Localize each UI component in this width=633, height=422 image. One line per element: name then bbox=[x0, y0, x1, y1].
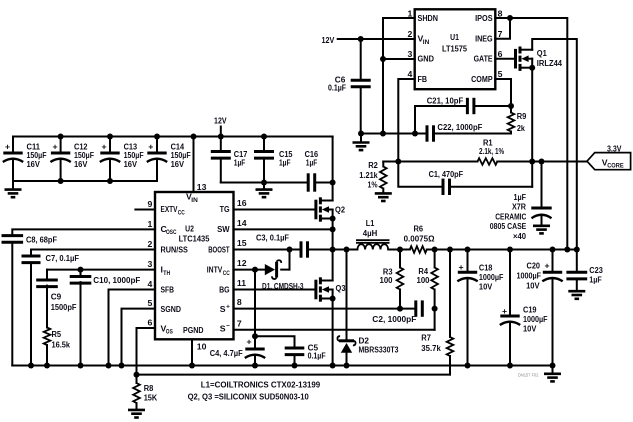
capacitor C9 bbox=[46, 270, 48, 280]
svg-text:2k: 2k bbox=[517, 123, 525, 133]
svg-text:Q3: Q3 bbox=[336, 283, 346, 293]
wire IPOS sense bbox=[495, 18, 567, 250]
resistor R6 sense bbox=[410, 246, 427, 253]
transistor Q3 bbox=[314, 280, 317, 300]
svg-text:1µF: 1µF bbox=[306, 158, 318, 168]
svg-text:+: + bbox=[502, 306, 507, 316]
inductor L1 bbox=[333, 249, 358, 251]
svg-text:0805 CASE: 0805 CASE bbox=[490, 221, 527, 231]
wire SFB to ground bbox=[109, 290, 156, 366]
wire INTVCC line bbox=[234, 269, 266, 271]
capacitor C17 bbox=[220, 137, 222, 152]
svg-text:0.1µF: 0.1µF bbox=[308, 351, 326, 361]
diode D1 CMDSH-3 bbox=[265, 264, 275, 275]
svg-text:BOOST: BOOST bbox=[208, 245, 230, 255]
svg-text:1µF: 1µF bbox=[589, 275, 602, 285]
resistor R9 bbox=[510, 106, 512, 113]
svg-text:1000µF: 1000µF bbox=[479, 272, 504, 282]
svg-text:5: 5 bbox=[147, 298, 152, 308]
transistor Q2 bbox=[314, 200, 317, 220]
svg-text:16: 16 bbox=[237, 198, 247, 208]
capacitor C3 bbox=[300, 241, 303, 257]
svg-text:TH: TH bbox=[163, 270, 170, 277]
svg-text:CORE: CORE bbox=[607, 162, 624, 169]
svg-text:3: 3 bbox=[147, 259, 152, 269]
capacitor C5 bbox=[255, 336, 295, 348]
svg-text:C7, 0.1µF: C7, 0.1µF bbox=[46, 253, 80, 263]
ground C23 bbox=[568, 290, 585, 293]
capacitor C2 bbox=[414, 300, 417, 316]
capacitor C12 bbox=[60, 137, 62, 154]
wire Q3 source to ground bbox=[332, 299, 334, 366]
ground X7R cap bbox=[533, 225, 550, 228]
wire ITH line bbox=[47, 269, 155, 271]
svg-text:1000µF: 1000µF bbox=[517, 270, 542, 280]
wire Q1 drain to output bbox=[532, 39, 577, 250]
wire Vcore feedback line bbox=[383, 161, 477, 163]
svg-text:R2: R2 bbox=[368, 160, 378, 170]
svg-text:BG: BG bbox=[219, 285, 230, 295]
capacitor C16 bbox=[307, 173, 310, 191]
node VCORE output tag bbox=[587, 153, 631, 170]
svg-text:10V: 10V bbox=[523, 324, 537, 334]
wire SW line bbox=[234, 228, 333, 230]
svg-text:C8, 68pF: C8, 68pF bbox=[26, 235, 57, 245]
svg-text:C2, 1000pF: C2, 1000pF bbox=[372, 314, 416, 324]
resistor R8 bbox=[136, 375, 138, 383]
svg-text:COMP: COMP bbox=[471, 74, 493, 84]
svg-text:X7R: X7R bbox=[512, 202, 527, 212]
wire bypass ground line bbox=[221, 182, 308, 184]
capacitor C15 bbox=[263, 137, 265, 152]
svg-text:L1: L1 bbox=[366, 218, 375, 228]
svg-text:MBRS330T3: MBRS330T3 bbox=[359, 344, 399, 354]
svg-text:12V: 12V bbox=[322, 35, 335, 45]
wire PGND lead bbox=[191, 339, 193, 365]
diode D2 MBRS330T3 bbox=[346, 250, 348, 341]
svg-text:13: 13 bbox=[197, 182, 207, 192]
svg-text:R7: R7 bbox=[421, 333, 431, 343]
svg-text:15: 15 bbox=[237, 238, 247, 248]
svg-text:1000µF: 1000µF bbox=[523, 314, 548, 324]
svg-text:7: 7 bbox=[498, 29, 503, 39]
ground U1 analog bus bbox=[361, 133, 427, 135]
capacitor C6 bbox=[358, 36, 364, 42]
svg-text:+: + bbox=[101, 142, 106, 152]
wire GATE to Q1 bbox=[495, 58, 515, 60]
svg-text:S: S bbox=[220, 304, 226, 314]
svg-text:OS: OS bbox=[166, 329, 174, 336]
svg-text:C21, 10pF: C21, 10pF bbox=[427, 95, 464, 105]
svg-text:1.21k: 1.21k bbox=[359, 170, 378, 180]
svg-text:C22, 1000pF: C22, 1000pF bbox=[437, 122, 482, 132]
wire C21 to ground bus bbox=[414, 106, 416, 134]
svg-text:+: + bbox=[5, 142, 10, 152]
svg-text:3.3V: 3.3V bbox=[607, 143, 622, 153]
svg-text:+: + bbox=[226, 304, 230, 311]
capacitor C18 bbox=[467, 250, 469, 273]
wire EXTVCC stub bbox=[135, 209, 155, 211]
svg-text:C1, 470pF: C1, 470pF bbox=[429, 169, 464, 179]
resistor R2 bbox=[382, 162, 384, 167]
svg-text:16V: 16V bbox=[171, 159, 185, 169]
wire SGND to ground bbox=[122, 309, 156, 366]
svg-text:IN: IN bbox=[423, 39, 430, 46]
resistor R4 bbox=[434, 250, 436, 268]
svg-text:9: 9 bbox=[147, 199, 152, 209]
svg-text:1µF: 1µF bbox=[234, 158, 246, 168]
capacitor C19 bbox=[509, 250, 511, 317]
svg-text:SGND: SGND bbox=[161, 304, 182, 314]
svg-text:LTC1435: LTC1435 bbox=[179, 234, 210, 244]
wire SHDN-GND tie bbox=[383, 18, 415, 134]
svg-text:FB: FB bbox=[418, 74, 428, 84]
svg-text:1: 1 bbox=[147, 219, 152, 229]
svg-text:4: 4 bbox=[147, 279, 152, 289]
svg-text:6: 6 bbox=[498, 49, 503, 59]
svg-text:RUN/SS: RUN/SS bbox=[161, 245, 189, 255]
wire VIN riser bbox=[193, 137, 195, 193]
wire 12V drop to Q2 drain bbox=[332, 137, 334, 201]
wire TG to Q2 gate bbox=[234, 209, 316, 211]
svg-text:EXTV: EXTV bbox=[161, 204, 178, 214]
capacitor C7 bbox=[31, 250, 155, 257]
wire SW node vertical bbox=[332, 219, 334, 281]
wire BG to Q3 gate bbox=[234, 289, 316, 291]
svg-text:C3, 0.1µF: C3, 0.1µF bbox=[256, 233, 289, 243]
svg-text:GATE: GATE bbox=[474, 54, 493, 64]
ground main rail bbox=[552, 366, 554, 374]
svg-text:1µF: 1µF bbox=[279, 158, 291, 168]
svg-text:CC: CC bbox=[223, 270, 230, 277]
capacitor C1 bbox=[398, 162, 442, 187]
svg-text:IPOS: IPOS bbox=[475, 13, 493, 23]
svg-text:C9: C9 bbox=[51, 292, 62, 302]
svg-text:4µH: 4µH bbox=[363, 228, 378, 238]
svg-text:L1=COILTRONICS CTX02-13199: L1=COILTRONICS CTX02-13199 bbox=[201, 380, 321, 390]
svg-text:16V: 16V bbox=[27, 159, 41, 169]
capacitor C10 bbox=[80, 270, 82, 277]
svg-text:LT1575: LT1575 bbox=[442, 44, 467, 54]
capacitor C4 bbox=[254, 270, 256, 349]
resistor R5 bbox=[44, 328, 51, 346]
svg-text:1500pF: 1500pF bbox=[51, 302, 77, 312]
svg-text:Q2: Q2 bbox=[335, 204, 345, 214]
wire VOS sense line bbox=[137, 328, 156, 375]
wire S+ line bbox=[234, 308, 416, 310]
svg-text:5: 5 bbox=[498, 69, 503, 79]
svg-text:100: 100 bbox=[380, 275, 393, 285]
ground bypass caps bbox=[261, 180, 267, 186]
wire 12V input rail bbox=[13, 136, 333, 138]
resistor R7 bbox=[449, 250, 451, 338]
svg-text:8: 8 bbox=[237, 297, 242, 307]
svg-text:12: 12 bbox=[237, 258, 247, 268]
capacitor C11 bbox=[3, 152, 22, 155]
svg-text:Q2, Q3 =SILICONIX SUD50N03-10: Q2, Q3 =SILICONIX SUD50N03-10 bbox=[188, 392, 309, 402]
op-amp U2 LTC1435 body bbox=[155, 192, 234, 339]
svg-text:11: 11 bbox=[237, 278, 246, 288]
svg-text:Q1: Q1 bbox=[537, 48, 547, 58]
svg-text:SFB: SFB bbox=[161, 285, 175, 295]
svg-text:GND: GND bbox=[418, 54, 435, 64]
capacitor C21 bbox=[415, 105, 467, 107]
wire FB line bbox=[398, 79, 414, 162]
svg-text:0.1µF: 0.1µF bbox=[328, 83, 346, 93]
wire S- line bbox=[234, 329, 435, 331]
capacitor C13 bbox=[109, 137, 111, 154]
svg-text:4: 4 bbox=[407, 69, 412, 79]
svg-text:10V: 10V bbox=[526, 280, 540, 290]
svg-text:U2: U2 bbox=[185, 224, 194, 234]
svg-text:C4, 4.7µF: C4, 4.7µF bbox=[210, 348, 243, 358]
svg-text:2: 2 bbox=[147, 239, 152, 249]
svg-text:16V: 16V bbox=[74, 159, 88, 169]
capacitor C22 bbox=[426, 125, 429, 141]
svg-text:R9: R9 bbox=[517, 111, 527, 121]
wire cap-bank ground rail bbox=[12, 137, 14, 154]
svg-text:6: 6 bbox=[147, 317, 152, 327]
wire Q1 source to Vcore sense bbox=[531, 68, 533, 162]
svg-text:12V: 12V bbox=[214, 116, 227, 126]
svg-text:−: − bbox=[226, 323, 230, 330]
svg-text:SW: SW bbox=[217, 224, 230, 234]
wire 12V to VIN pin bbox=[338, 38, 415, 40]
svg-text:U1: U1 bbox=[450, 32, 459, 42]
wire output rail bbox=[427, 249, 577, 251]
svg-text:SHDN: SHDN bbox=[418, 13, 439, 23]
capacitor C23 bbox=[576, 250, 578, 273]
svg-text:16.5k: 16.5k bbox=[52, 340, 71, 350]
svg-text:+: + bbox=[246, 336, 251, 346]
ground R8 bbox=[128, 409, 145, 412]
svg-text:OSC: OSC bbox=[166, 229, 177, 236]
svg-text:C20: C20 bbox=[527, 260, 541, 270]
svg-text:PGND: PGND bbox=[183, 325, 204, 335]
svg-text:R5: R5 bbox=[52, 329, 62, 339]
svg-text:2: 2 bbox=[407, 29, 412, 39]
resistor R1 bbox=[478, 158, 498, 165]
svg-text:+: + bbox=[148, 142, 153, 152]
svg-text:IN: IN bbox=[191, 197, 198, 204]
ground R2 bbox=[375, 192, 392, 195]
capacitor C14 bbox=[156, 137, 158, 154]
svg-text:16V: 16V bbox=[124, 159, 138, 169]
svg-text:C10, 1000pF: C10, 1000pF bbox=[93, 275, 140, 285]
svg-text:CERAMIC: CERAMIC bbox=[495, 211, 527, 221]
wire R1 to Vcore tag bbox=[497, 161, 587, 163]
capacitor C8 bbox=[12, 229, 155, 235]
op-amp U1 LT1575 body bbox=[415, 9, 496, 89]
svg-text:0.0075Ω: 0.0075Ω bbox=[404, 233, 435, 243]
capacitor ceramic 1uF X7R bbox=[541, 162, 543, 209]
svg-text:TG: TG bbox=[220, 204, 230, 214]
svg-text:IRLZ44: IRLZ44 bbox=[537, 58, 562, 68]
wire BOOST line bbox=[234, 249, 301, 251]
wire GND pin stub bbox=[383, 58, 415, 60]
svg-text:10: 10 bbox=[197, 342, 207, 352]
svg-text:35.7k: 35.7k bbox=[421, 343, 441, 353]
wire main ground rail bbox=[12, 365, 552, 367]
svg-text:2.1k, 1%: 2.1k, 1% bbox=[479, 146, 504, 156]
capacitor C20 bbox=[552, 250, 554, 273]
svg-text:C23: C23 bbox=[589, 265, 603, 275]
svg-text:100: 100 bbox=[417, 275, 430, 285]
svg-text:CC: CC bbox=[178, 209, 185, 216]
svg-text:C18: C18 bbox=[479, 263, 493, 273]
svg-text:15K: 15K bbox=[144, 393, 158, 403]
svg-text:INEG: INEG bbox=[475, 34, 493, 44]
svg-text:+: + bbox=[544, 260, 549, 270]
svg-text:1%: 1% bbox=[368, 180, 378, 190]
wire COMP to network bbox=[495, 79, 511, 106]
svg-text:R6: R6 bbox=[414, 223, 424, 233]
svg-text:1µF: 1µF bbox=[514, 192, 527, 202]
svg-text:+: + bbox=[53, 142, 58, 152]
svg-text:DN157 F02: DN157 F02 bbox=[518, 372, 539, 377]
transistor Q1 bbox=[514, 49, 517, 69]
svg-text:R8: R8 bbox=[144, 383, 154, 393]
svg-text:7: 7 bbox=[237, 318, 242, 328]
ground cap bank bbox=[12, 159, 14, 190]
wire INEG tie bbox=[495, 18, 510, 39]
node 12V supply entry bbox=[220, 127, 222, 137]
svg-text:14: 14 bbox=[237, 218, 247, 228]
resistor R3 bbox=[399, 250, 401, 268]
svg-text:INTV: INTV bbox=[207, 265, 223, 275]
svg-text:10V: 10V bbox=[479, 282, 493, 292]
svg-text:+: + bbox=[458, 262, 463, 272]
svg-text:C19: C19 bbox=[523, 305, 537, 315]
svg-text:S: S bbox=[220, 323, 226, 333]
svg-text:×40: ×40 bbox=[513, 231, 526, 241]
svg-text:3: 3 bbox=[407, 49, 412, 59]
